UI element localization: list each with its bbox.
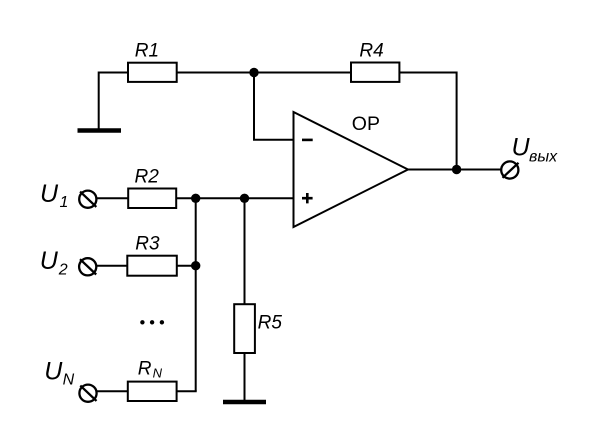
wire RN to summing line [177,390,197,392]
terminal UN input [79,385,96,402]
label RN [138,358,163,380]
svg-text:N: N [153,366,163,381]
wire R4 to output node (feedback) [399,73,456,170]
resistor R1 [128,63,177,82]
ground (below R5) [223,400,266,405]
op-amp plus sign [302,193,313,203]
ground (top-left) [78,128,122,133]
terminal U1 input [79,191,96,208]
svg-text:R: R [138,358,152,379]
resistor R4 [351,63,399,82]
svg-text:2: 2 [58,261,68,278]
wire op-amp output [408,169,501,171]
resistor RN [128,382,177,401]
op-amp minus sign [302,139,313,142]
svg-text:R2: R2 [135,167,160,188]
node summing junction [191,194,200,203]
svg-text:U: U [40,180,59,208]
node R3 junction [191,261,200,270]
svg-text:U: U [512,134,531,162]
wire node to inverting input [254,73,294,140]
terminal output (circle with slash) [501,161,518,178]
op-amp OP triangle [294,112,409,227]
svg-text:R4: R4 [359,40,383,61]
resistor R3 [127,256,177,276]
svg-text:U: U [40,247,59,275]
label U1 [40,180,68,211]
svg-text:R3: R3 [135,234,160,255]
node output junction [452,165,461,174]
label U2 [40,247,68,279]
wire U1 to R2 [96,197,128,199]
ellipsis dots [140,320,164,324]
svg-text:N: N [63,371,75,388]
wire R2 to noninverting input [176,197,293,199]
wire R3 to summing line [177,265,196,267]
wire R1 left lead to ground drop [99,73,128,129]
svg-text:R1: R1 [135,40,159,61]
wire R1 to R4 (top net) [177,72,351,74]
wire R5 to ground [244,353,246,400]
svg-text:R5: R5 [258,313,283,334]
resistor R2 [128,189,176,209]
svg-text:OP: OP [352,113,380,135]
terminal U2 input [79,258,96,275]
wire UN to RN [97,390,128,392]
wire summing node to R5 [244,198,246,304]
resistor R5 [234,304,255,353]
label Uvyh [512,134,559,166]
wire summing vertical line [195,198,197,391]
label UN [44,357,74,388]
svg-text:вых: вых [529,149,558,166]
svg-text:U: U [44,357,63,385]
svg-text:1: 1 [60,194,69,211]
node R5 junction [240,194,249,203]
wire U2 to R3 [96,265,127,267]
node top junction [249,68,258,77]
